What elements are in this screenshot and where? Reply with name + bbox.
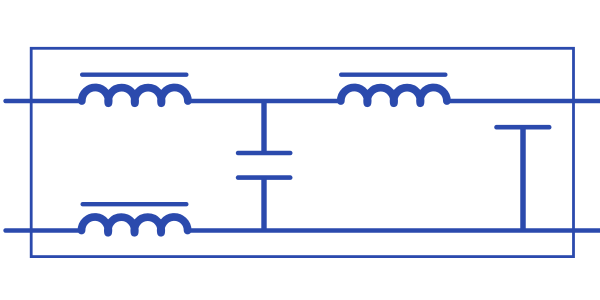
capacitor C1 top lead — [261, 101, 266, 153]
capacitor C1 bottom lead — [261, 178, 266, 231]
capacitor C1 bottom plate — [238, 175, 290, 180]
border frame of schematic — [31, 48, 573, 256]
wire bottom rail left segment — [6, 228, 83, 233]
wire bottom rail right segment — [187, 228, 600, 233]
inductor L3 core bar — [83, 202, 187, 206]
wire top rail left segment — [6, 99, 83, 104]
capacitor C2 plate — [497, 125, 550, 130]
inductor L1 core bar — [82, 72, 186, 76]
capacitor C1 top plate — [238, 151, 290, 156]
inductor L1 coil — [82, 87, 188, 103]
inductor L3 coil — [81, 217, 187, 233]
inductor L2 coil — [341, 87, 447, 103]
capacitor C2 lead to bottom rail — [520, 127, 526, 230]
inductor L2 core bar — [341, 72, 445, 76]
wire top rail right segment — [446, 99, 600, 104]
wire top rail middle segment — [187, 99, 342, 104]
